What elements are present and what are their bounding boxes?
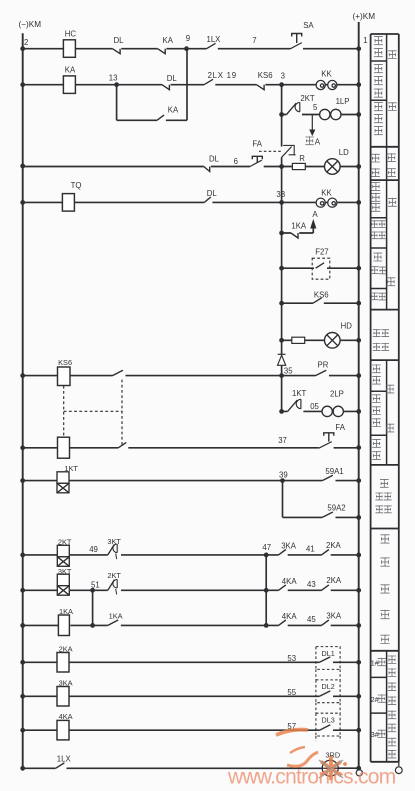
junction rung53 right bus bbox=[356, 660, 361, 665]
coil TQ bbox=[62, 181, 81, 211]
svg-text:1KT: 1KT bbox=[64, 464, 78, 473]
contact KA branch bbox=[157, 106, 179, 121]
svg-text:DL: DL bbox=[209, 155, 220, 164]
wire KA branch bbox=[117, 49, 187, 121]
wire rung 2KT-1LP bbox=[282, 114, 359, 116]
svg-text:R: R bbox=[299, 154, 305, 163]
junction KS6 rung mid bus bbox=[279, 301, 284, 306]
coil KA bbox=[63, 66, 76, 94]
svg-text:(−)KM: (−)KM bbox=[19, 20, 42, 29]
terminal table corner bbox=[395, 762, 402, 774]
junction rung45 right bus bbox=[356, 623, 361, 628]
contact 3KA rung49 bbox=[279, 542, 297, 555]
node 47 bbox=[262, 543, 271, 557]
svg-text:A: A bbox=[315, 137, 321, 146]
svg-text:KS6: KS6 bbox=[314, 291, 329, 300]
svg-text:2KT: 2KT bbox=[107, 571, 121, 580]
svg-text:39: 39 bbox=[279, 470, 288, 479]
svg-text:KS6: KS6 bbox=[58, 358, 72, 367]
lamp HD bbox=[325, 321, 353, 348]
junction F27 right bus bbox=[356, 266, 361, 271]
wire rung 37 bbox=[23, 447, 359, 449]
svg-text:35: 35 bbox=[284, 366, 293, 375]
junction rung55 right bus bbox=[356, 694, 361, 699]
contact 2LX wire 19 bbox=[204, 71, 237, 85]
svg-text:DL: DL bbox=[167, 74, 178, 83]
junction rung2 left bbox=[20, 82, 25, 87]
wire 59A2 branch bbox=[283, 481, 359, 518]
wire rung2 bbox=[23, 84, 359, 86]
contact linked KS6 bbox=[113, 370, 123, 375]
svg-text:FA: FA bbox=[252, 139, 262, 148]
mechanical link dashes KS6 bbox=[64, 380, 122, 446]
junction 1LP right bus bbox=[356, 112, 361, 117]
coil 3KA bbox=[57, 678, 73, 706]
junction 1LX right bus bbox=[356, 766, 361, 771]
svg-text:4KA: 4KA bbox=[282, 612, 298, 621]
junction KS6 coil left bus bbox=[20, 373, 25, 378]
table text block1 试验开关柜自投入/合闸 bbox=[374, 36, 397, 135]
junction 1KA branch mid bus bbox=[279, 231, 284, 236]
table text block5 保护过电压解除/闭锁 bbox=[372, 364, 394, 459]
arrow reference down to A bbox=[309, 115, 315, 137]
contact 4KA rung51 bbox=[279, 577, 298, 590]
contact 3KA rung45 bbox=[322, 611, 342, 625]
junction rung53 left bus bbox=[20, 660, 25, 665]
table text block3 开关柜自动分闸低电压保护/分闸 bbox=[371, 182, 397, 300]
svg-text:2KT: 2KT bbox=[58, 538, 72, 547]
svg-text:45: 45 bbox=[307, 615, 316, 624]
contact 1LX rung1 bbox=[207, 35, 222, 49]
junction 2KT rung on mid bus bbox=[279, 112, 284, 117]
svg-text:KA: KA bbox=[163, 36, 174, 45]
wire rung 51 bbox=[23, 589, 359, 591]
switch SA bbox=[291, 21, 315, 49]
svg-text:TQ: TQ bbox=[71, 181, 82, 190]
svg-text:7: 7 bbox=[252, 36, 256, 45]
junction rung49 left bus bbox=[20, 553, 25, 558]
svg-text:43: 43 bbox=[307, 580, 316, 589]
svg-text:3KA: 3KA bbox=[59, 678, 73, 687]
junction rung55 left bus bbox=[20, 694, 25, 699]
svg-text:DL3: DL3 bbox=[322, 715, 335, 724]
junction rung39 left bus bbox=[20, 478, 25, 483]
timed contact 2KT lower bbox=[107, 571, 121, 594]
wire rung 2LP bbox=[282, 410, 359, 412]
junction rung2 right bus bbox=[356, 82, 361, 87]
wire mid vertical bus bbox=[281, 85, 283, 412]
svg-text:(+)KM: (+)KM bbox=[353, 12, 376, 21]
svg-text:2: 2 bbox=[24, 38, 28, 47]
contact KS6 right bbox=[313, 291, 329, 304]
junction 2LP right bus bbox=[356, 409, 361, 414]
breaker contact DL2 in dashed box bbox=[316, 680, 340, 703]
wire 1KA branch bbox=[282, 228, 314, 233]
svg-text:KA: KA bbox=[65, 66, 76, 75]
svg-text:2KA: 2KA bbox=[326, 541, 342, 550]
svg-text:2KA: 2KA bbox=[59, 644, 73, 653]
table frame bbox=[371, 34, 399, 762]
svg-text:1#: 1# bbox=[371, 658, 379, 667]
timed contact 3KT bbox=[107, 537, 121, 559]
svg-text:55: 55 bbox=[287, 688, 296, 697]
svg-text:5: 5 bbox=[313, 103, 318, 112]
svg-text:3KT: 3KT bbox=[58, 567, 72, 576]
wire rung 53 bbox=[23, 661, 359, 663]
svg-text:6: 6 bbox=[234, 157, 238, 166]
svg-text:DL1: DL1 bbox=[322, 649, 335, 658]
coil TJ rung37 bbox=[58, 437, 70, 458]
svg-text:1: 1 bbox=[363, 36, 367, 45]
junction HD mid bus bbox=[279, 338, 284, 343]
svg-text:A: A bbox=[312, 210, 318, 219]
diode on mid bus bbox=[278, 354, 286, 365]
terminal right bus bottom bbox=[356, 770, 362, 776]
switch KK rung2 bbox=[316, 70, 337, 90]
svg-text:HC: HC bbox=[65, 30, 77, 39]
button FA rung37 bbox=[319, 423, 346, 448]
coil 1KT bbox=[57, 464, 78, 493]
junction rung37 right bus bbox=[356, 445, 361, 450]
contact DL rung1 bbox=[113, 36, 125, 54]
svg-text:47: 47 bbox=[262, 543, 271, 552]
svg-text:KK: KK bbox=[321, 70, 332, 79]
svg-text:3KA: 3KA bbox=[326, 611, 342, 620]
contact DL rung2 bbox=[162, 74, 177, 90]
switch KK rung TQ bbox=[316, 188, 337, 207]
svg-text:9: 9 bbox=[186, 34, 190, 43]
svg-text:FA: FA bbox=[335, 423, 345, 432]
svg-text:KS6: KS6 bbox=[258, 71, 273, 80]
svg-text:LD: LD bbox=[339, 148, 349, 157]
node 1 bbox=[356, 36, 367, 51]
dashed link between breaker boxes bbox=[316, 669, 340, 741]
svg-text:1KA: 1KA bbox=[109, 612, 123, 621]
contact PR bbox=[316, 360, 329, 375]
wire rung 49 bbox=[23, 554, 359, 556]
junction rung51 left bus bbox=[20, 588, 25, 593]
svg-text:1KT: 1KT bbox=[292, 389, 307, 398]
junction 2LP rung mid bus bbox=[279, 409, 284, 414]
junction KS6 rung right bus bbox=[356, 301, 361, 306]
svg-text:3#: 3# bbox=[371, 730, 379, 739]
contact 59A2 bbox=[322, 503, 345, 517]
positive bus (+)KM bbox=[353, 12, 376, 769]
junction R rung mid bus bbox=[279, 164, 284, 169]
label 全A bbox=[305, 136, 321, 146]
relay contact F27 in dashed box bbox=[312, 247, 330, 279]
resistor HD rung bbox=[292, 337, 305, 343]
junction F27 mid bus bbox=[279, 266, 284, 271]
svg-text:1KA: 1KA bbox=[59, 607, 73, 616]
svg-text:2LX 19: 2LX 19 bbox=[208, 71, 237, 80]
svg-text:33: 33 bbox=[276, 190, 285, 199]
wire rung 1LX bbox=[23, 767, 359, 769]
contact DL rung TQ bbox=[204, 189, 217, 203]
svg-text:1KA: 1KA bbox=[291, 221, 307, 230]
fuse 3RD bbox=[322, 751, 340, 777]
contact 1LX bottom bbox=[56, 755, 72, 769]
junction 1LX left bus bbox=[20, 766, 25, 771]
wire rung 45 bbox=[23, 555, 359, 626]
contact 1KA rung45 bbox=[108, 612, 123, 626]
contact DL rung R bbox=[204, 155, 220, 172]
wire rung 57 bbox=[23, 729, 359, 731]
contact 2KA rung51 bbox=[322, 576, 342, 590]
junction rung49 right bus bbox=[356, 553, 361, 558]
wire rung KS6 contact bbox=[282, 302, 359, 304]
svg-text:05: 05 bbox=[310, 402, 319, 411]
watermark logo star bbox=[319, 756, 347, 780]
junction node47 mid bbox=[264, 588, 269, 593]
node 39 bbox=[279, 470, 288, 483]
coil KS6 bbox=[58, 358, 73, 385]
breaker contact DL1 in dashed box bbox=[316, 647, 340, 670]
svg-text:F27: F27 bbox=[315, 247, 328, 256]
junction HD right bus bbox=[356, 338, 361, 343]
coil 2KT bbox=[57, 538, 72, 567]
node 2 bbox=[20, 38, 28, 51]
svg-text:41: 41 bbox=[306, 544, 315, 553]
coil 4KA bbox=[57, 712, 73, 740]
contact KS6 rung2 bbox=[257, 71, 273, 90]
svg-text:DL: DL bbox=[207, 189, 218, 198]
wire rung F27 bbox=[282, 267, 359, 269]
wire rung HD bbox=[282, 339, 359, 341]
junction LD right bus bbox=[356, 164, 361, 169]
arrow reference up A bbox=[310, 210, 318, 229]
svg-text:51: 51 bbox=[91, 580, 100, 589]
svg-text:59A2: 59A2 bbox=[327, 503, 345, 512]
table text block7 电动机联锁 bbox=[380, 534, 389, 643]
contact linked rung37 bbox=[118, 442, 126, 447]
table text block2 跳闸指示 bbox=[371, 153, 396, 176]
timed contact 1KT bbox=[288, 389, 307, 411]
button FA with trip link bbox=[250, 139, 282, 166]
coil 1KA bbox=[58, 607, 73, 636]
svg-text:59A1: 59A1 bbox=[325, 467, 343, 476]
svg-text:KA: KA bbox=[168, 106, 179, 115]
lamp LD bbox=[325, 148, 350, 175]
svg-text:49: 49 bbox=[89, 545, 98, 554]
svg-text:1LP: 1LP bbox=[336, 97, 350, 106]
link 1LP bbox=[320, 97, 350, 120]
junction 59A2 right bus bbox=[356, 515, 361, 520]
svg-text:PR: PR bbox=[318, 360, 329, 369]
svg-text:1LX: 1LX bbox=[207, 35, 222, 44]
wire rung1 bbox=[23, 48, 359, 50]
junction rung57 left bus bbox=[20, 728, 25, 733]
junction rung45 left bus bbox=[20, 623, 25, 628]
svg-text:4KA: 4KA bbox=[282, 577, 298, 586]
junction PR right bus bbox=[356, 373, 361, 378]
junction KK right bus bbox=[356, 200, 361, 205]
table text block8 1#2#3#机 电机辅助触点扩展 bbox=[371, 655, 396, 758]
node 35 bbox=[279, 366, 293, 378]
breaker contact DL3 in dashed box bbox=[316, 713, 340, 736]
junction node51 branch bbox=[90, 623, 95, 628]
svg-text:3: 3 bbox=[281, 72, 285, 81]
wire rung 55 bbox=[23, 695, 359, 697]
svg-text:KK: KK bbox=[321, 188, 332, 197]
svg-text:DL: DL bbox=[114, 36, 125, 45]
table text block4 合闸指示 bbox=[373, 329, 389, 350]
svg-text:SA: SA bbox=[303, 21, 314, 30]
svg-text:2#: 2# bbox=[371, 695, 379, 704]
coil 2KA bbox=[57, 644, 73, 672]
coil HC bbox=[63, 30, 76, 58]
negative bus (-)KM bbox=[19, 20, 42, 768]
svg-text:4KA: 4KA bbox=[59, 712, 73, 721]
wire rung 39 bbox=[23, 480, 359, 482]
latch contact on mid bus bbox=[282, 145, 296, 157]
table text block6 过电压保护 bbox=[375, 479, 391, 513]
svg-text:HD: HD bbox=[341, 321, 353, 330]
watermark logo swoosh bbox=[276, 730, 318, 767]
contact 1KA branch bbox=[291, 221, 307, 238]
junction node47 bottom bbox=[264, 623, 269, 628]
junction rung51 right bus bbox=[356, 588, 361, 593]
junction rung37 left bus bbox=[20, 445, 25, 450]
junction rung57 right bus bbox=[356, 728, 361, 733]
resistor R bbox=[292, 154, 305, 169]
svg-text:53: 53 bbox=[287, 654, 296, 663]
svg-text:1LX: 1LX bbox=[57, 755, 72, 764]
junction R rung left bus bbox=[20, 164, 25, 169]
node 3 bbox=[279, 72, 285, 88]
junction TQ left bus bbox=[20, 200, 25, 205]
node 13 bbox=[109, 73, 119, 87]
contact KA rung1 bbox=[158, 36, 174, 54]
wire rung KS6 coil - PR bbox=[23, 375, 359, 377]
contact 2KA rung49 bbox=[322, 541, 342, 555]
svg-text:13: 13 bbox=[109, 73, 118, 82]
svg-text:3KA: 3KA bbox=[281, 542, 297, 551]
contact 59A1 bbox=[322, 467, 343, 481]
wire rung TQ bbox=[23, 201, 359, 203]
svg-text:37: 37 bbox=[278, 436, 287, 445]
node 33 bbox=[276, 190, 285, 205]
svg-text:www.cntronics.com: www.cntronics.com bbox=[227, 766, 396, 789]
link 2LP bbox=[322, 389, 344, 416]
coil 3KT bbox=[57, 567, 72, 595]
wire rung R-LD bbox=[23, 166, 359, 168]
svg-text:2LP: 2LP bbox=[330, 389, 344, 398]
svg-text:DL2: DL2 bbox=[322, 682, 335, 691]
node 9 bbox=[184, 34, 190, 51]
svg-text:2KA: 2KA bbox=[326, 576, 342, 585]
contact 4KA rung45 bbox=[279, 612, 298, 625]
junction 59A1 right bus bbox=[356, 478, 361, 483]
svg-text:3KT: 3KT bbox=[107, 537, 121, 546]
timed contact 2KT bbox=[287, 94, 315, 114]
node 51 bbox=[90, 580, 99, 592]
